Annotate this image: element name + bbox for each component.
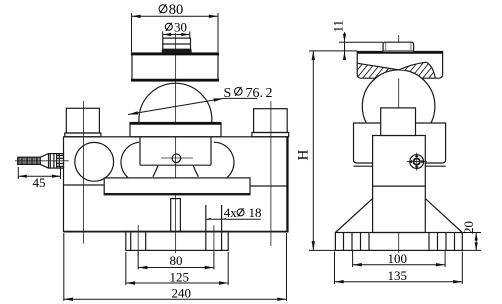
svg-text:S: S	[224, 86, 232, 101]
seat arc left	[358, 63, 399, 70]
pedestal top plate (ball seat)	[130, 123, 221, 137]
svg-text:30: 30	[174, 20, 187, 35]
socket screw symbol	[407, 153, 427, 171]
leader S Ø76.2	[128, 86, 273, 115]
boss washer	[162, 49, 192, 53]
flare right (boot)	[193, 165, 198, 176]
hole centerline right	[213, 225, 215, 256]
svg-text:135: 135	[388, 268, 408, 283]
dimension Ø30	[163, 20, 190, 38]
dimension Ø80	[132, 2, 219, 52]
seat washer right edge curve	[427, 62, 436, 78]
inner body line right of bar	[250, 185, 288, 187]
label 4xØ18 leader	[206, 218, 261, 220]
svg-text:20: 20	[461, 221, 476, 234]
svg-text:2: 2	[266, 86, 273, 101]
cable rod taper	[40, 154, 48, 169]
cable rod centerline	[15, 160, 69, 162]
flare diagonal right	[425, 199, 462, 233]
dimension 80 bottom	[138, 252, 214, 270]
svg-text:80: 80	[170, 253, 183, 268]
hump arc right (circle arc)	[214, 142, 234, 177]
plate section hatch	[346, 52, 456, 84]
inner body line left of bar	[64, 184, 105, 186]
flare diagonal left	[335, 199, 372, 233]
link bar plate	[104, 178, 250, 195]
right block centerline	[270, 101, 272, 246]
svg-text:240: 240	[172, 285, 192, 300]
right block on body	[252, 109, 289, 137]
base block	[126, 232, 228, 251]
base plate hole lines left	[344, 233, 370, 251]
dimension 20	[461, 221, 481, 250]
hole circle left	[75, 142, 114, 181]
body outer box	[64, 137, 289, 232]
top plate side outline	[357, 52, 442, 79]
left block on body	[65, 108, 101, 137]
centerline right view	[398, 35, 400, 253]
dimension 100	[353, 251, 446, 267]
loading stud bottom center	[171, 199, 181, 232]
cable rod thread	[18, 157, 41, 164]
hole centerline left	[137, 225, 139, 256]
ball sphere (visible arc between cap and pedestal)	[139, 83, 212, 156]
base plate hole lines right	[429, 233, 455, 251]
pedestal narrow side	[381, 108, 416, 136]
svg-text:18: 18	[249, 205, 262, 220]
dimension 11	[331, 20, 384, 60]
label 4xØ18 text	[224, 205, 262, 220]
plate top thick edge	[357, 51, 442, 53]
base hole right lines (4xØ18)	[206, 205, 222, 250]
pedestal lower block	[140, 137, 211, 165]
ball side view	[362, 70, 435, 143]
base hole left lines	[131, 232, 146, 251]
boss Ø30 on cap	[163, 38, 191, 52]
column side	[373, 136, 426, 233]
hump arc left (circle arc)	[121, 142, 139, 177]
cable gland nut	[49, 154, 64, 169]
dimension 135	[335, 252, 463, 285]
left block centerline	[83, 101, 85, 244]
shoulders side	[354, 123, 446, 163]
svg-text:100: 100	[388, 251, 408, 266]
dimension 45	[18, 167, 60, 190]
svg-text:H: H	[296, 150, 312, 161]
svg-text:4x: 4x	[224, 205, 238, 220]
seat arc right	[399, 62, 427, 70]
dimension H	[296, 51, 358, 251]
flare left (boot)	[153, 165, 158, 176]
svg-text:80: 80	[169, 2, 184, 18]
svg-text:45: 45	[33, 175, 46, 190]
svg-text:11: 11	[331, 20, 346, 33]
centerline main left view	[175, 33, 177, 253]
svg-text:125: 125	[170, 269, 190, 284]
under-shoulder line	[354, 165, 446, 167]
boss side view	[383, 42, 414, 52]
dimension 125	[126, 252, 228, 285]
dimension 240	[64, 233, 287, 301]
svg-text:76.: 76.	[246, 86, 264, 101]
base plate side	[335, 233, 462, 251]
screw cross small circle on pedestal	[161, 154, 193, 163]
cap Ø80	[131, 53, 219, 81]
column inner line	[373, 185, 426, 187]
